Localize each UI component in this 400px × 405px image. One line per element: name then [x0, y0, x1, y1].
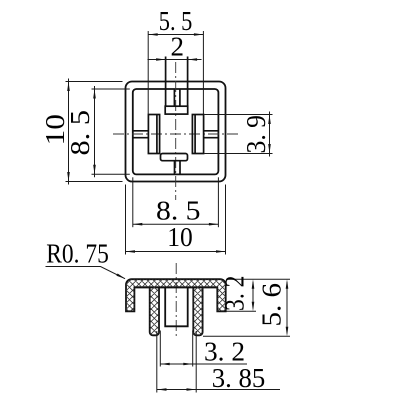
extension line flange top (for 3.2 / 5.6): [228, 278, 290, 280]
plate bottom edge: [134, 286, 217, 288]
svg-text:3. 2: 3. 2: [220, 276, 250, 312]
svg-text:8. 5: 8. 5: [156, 195, 201, 225]
right stem column: [193, 287, 202, 335]
arrowheads top view: [67, 33, 271, 253]
svg-text:8. 5: 8. 5: [65, 110, 95, 156]
top box under slot: [165, 106, 188, 114]
flange + skirt outline: [126, 279, 226, 311]
dim line 3.2 (stem bore): [160, 363, 247, 365]
10 left arrows: [67, 82, 70, 92]
svg-text:10: 10: [167, 222, 193, 252]
hatch lines clipped to material: [50, 158, 298, 405]
bottom rounded rect: [161, 154, 188, 161]
outer square of cap (top view): [126, 82, 226, 182]
dim line 5.6 (total height): [286, 282, 288, 333]
left rib: [148, 115, 159, 154]
dim line 3.2 (skirt depth): [252, 282, 254, 308]
5.5 arrows: [148, 33, 158, 36]
left stem column: [150, 287, 159, 335]
stem tube outer wall right / ext line: [195, 331, 197, 393]
svg-text:3. 9: 3. 9: [241, 115, 271, 154]
5.5 dim: [147, 31, 149, 114]
svg-text:R0. 75: R0. 75: [46, 239, 109, 269]
right 3.9 dim: [205, 114, 273, 116]
bottom 8.5 dim: [132, 177, 134, 227]
bottom 3.85 arrows: [157, 388, 167, 391]
extension line skirt bottom (for 3.2): [227, 310, 257, 312]
arrowheads section: [116, 274, 288, 391]
2 arrows outside: [156, 58, 166, 61]
R0.75 leader arrowhead: [116, 274, 125, 279]
left 8.5 dim: [92, 88, 130, 90]
centerline: [175, 263, 177, 337]
svg-text:3. 85: 3. 85: [212, 363, 265, 393]
3.2 right arrows: [252, 279, 255, 289]
stem tube inner wall left / ext line: [159, 331, 161, 367]
svg-text:2: 2: [171, 32, 185, 62]
bottom 10 arrows: [126, 250, 136, 253]
bottom 8.5 arrows: [133, 223, 143, 226]
right tab: [204, 131, 219, 138]
top narrow slot pair: [173, 90, 175, 107]
inner square (top face edge): [133, 89, 219, 174]
R0.75 leader line: [46, 267, 126, 279]
right rib: [192, 115, 203, 154]
stem tube inner wall right / ext line: [192, 331, 194, 367]
bottom narrow slot pair: [174, 161, 176, 175]
centerline vertical (top view): [175, 62, 177, 200]
5.6 arrows: [286, 279, 289, 289]
2 dim: [148, 59, 202, 61]
svg-text:3. 2: 3. 2: [204, 337, 245, 367]
bottom 10 dim: [125, 185, 127, 255]
bottom 3.2 arrows: [160, 363, 170, 366]
dim line 3.85 (stem outer): [157, 389, 280, 391]
left 10 dim: [66, 81, 123, 83]
extension line stem bottom (for 5.6): [203, 335, 290, 337]
3.9 arrows: [268, 115, 271, 125]
svg-text:5. 6: 5. 6: [257, 283, 287, 327]
8.5 left arrows: [93, 89, 96, 99]
left tab: [133, 131, 148, 138]
top slot side lines (2 wide): [165, 57, 167, 107]
stem tube outer wall left / ext line: [156, 331, 158, 393]
centerline horizontal (top view): [113, 133, 240, 135]
hole rect: [165, 287, 188, 326]
